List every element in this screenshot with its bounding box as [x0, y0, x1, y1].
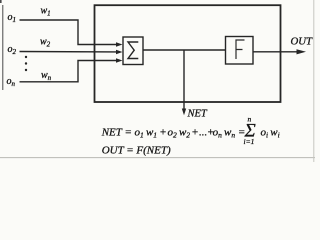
arrowhead o2 [116, 50, 123, 54]
scan corner mark top-left [0, 0, 2, 3]
svg-text:OUT = F(NET): OUT = F(NET) [102, 144, 171, 156]
wire o1 [20, 20, 118, 45]
arrowhead on [116, 58, 123, 62]
activation F glyph [236, 40, 245, 59]
svg-text:+: + [191, 126, 198, 138]
wire output [253, 51, 298, 53]
wire o2 [20, 51, 118, 53]
svg-text:oi wi: oi wi [261, 126, 280, 139]
wire sigma to F [143, 49, 226, 51]
wire on [20, 61, 118, 82]
svg-text:NET: NET [101, 126, 123, 138]
svg-text:i=1: i=1 [244, 137, 255, 146]
summation block box [123, 37, 143, 65]
neuron body box [95, 5, 281, 102]
arrowhead o1 [116, 42, 123, 46]
ellipsis dots [25, 56, 27, 71]
wire NET branch [183, 50, 185, 110]
activation block box F [226, 37, 254, 65]
arrowhead OUT [297, 49, 307, 54]
svg-text:OUT: OUT [291, 37, 314, 48]
svg-text:=: = [125, 126, 132, 138]
arrowhead NET [182, 109, 186, 116]
svg-text:NET: NET [187, 109, 208, 120]
scan border right [313, 0, 315, 162]
summation sigma glyph [128, 42, 138, 59]
scan border bottom [0, 157, 315, 159]
page edge line left [2, 5, 4, 90]
svg-text:+: + [159, 126, 166, 138]
